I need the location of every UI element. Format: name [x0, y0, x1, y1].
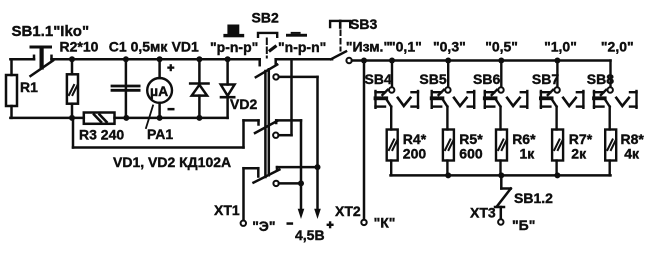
svg-text:"Изм.": "Изм." [346, 39, 390, 55]
svg-text:SB5: SB5 [419, 71, 446, 87]
svg-text:"p-n-p": "p-n-p" [210, 39, 258, 55]
svg-text:2к: 2к [571, 146, 587, 162]
svg-text:"К": "К" [374, 215, 396, 231]
svg-text:XT2: XT2 [335, 203, 361, 219]
svg-text:"n-p-n": "n-p-n" [278, 39, 326, 55]
svg-text:PA1: PA1 [147, 126, 173, 142]
svg-text:C1 0,5мк: C1 0,5мк [109, 38, 169, 54]
svg-text:"0,1": "0,1" [389, 39, 422, 55]
svg-text:200: 200 [403, 146, 427, 162]
svg-text:R2*10: R2*10 [60, 38, 99, 54]
svg-text:SB2: SB2 [252, 10, 279, 26]
svg-text:"0,3": "0,3" [433, 39, 466, 55]
svg-text:600: 600 [459, 146, 483, 162]
svg-text:SB4: SB4 [365, 71, 392, 87]
svg-text:4к: 4к [624, 146, 640, 162]
svg-text:µА: µА [150, 83, 168, 99]
svg-text:1к: 1к [520, 146, 536, 162]
svg-text:R3 240: R3 240 [79, 127, 124, 143]
svg-text:"Б": "Б" [512, 217, 535, 233]
svg-text:XT1: XT1 [214, 202, 240, 218]
svg-text:"0,5": "0,5" [485, 39, 518, 55]
svg-text:SB8: SB8 [587, 71, 614, 87]
svg-text:XT3: XT3 [470, 205, 496, 221]
svg-text:SB7: SB7 [532, 71, 559, 87]
svg-text:R1: R1 [20, 79, 38, 95]
svg-text:SB1.2: SB1.2 [514, 190, 553, 206]
svg-text:4,5В: 4,5В [295, 227, 325, 243]
svg-text:"2,0": "2,0" [601, 39, 634, 55]
svg-text:VD1, VD2 КД102А: VD1, VD2 КД102А [113, 154, 231, 170]
svg-text:"1,0": "1,0" [544, 39, 577, 55]
svg-text:VD1: VD1 [172, 38, 199, 54]
svg-text:SB3: SB3 [350, 16, 377, 32]
svg-text:VD2: VD2 [230, 96, 257, 112]
svg-text:"Э": "Э" [252, 218, 275, 234]
svg-text:SB6: SB6 [473, 71, 500, 87]
